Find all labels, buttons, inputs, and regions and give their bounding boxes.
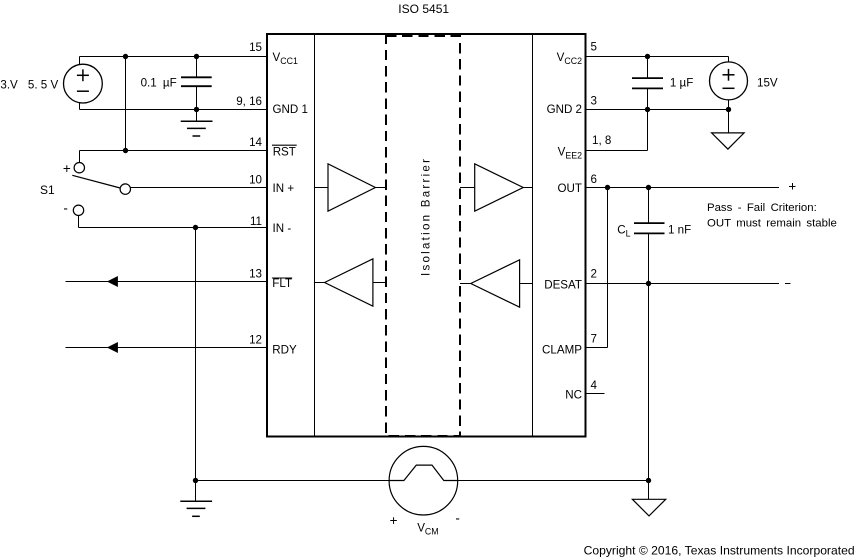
wire OUT to CLAMP jumper (607, 188, 609, 348)
wire RDY row (66, 347, 267, 349)
svg-text:+: + (390, 513, 398, 528)
svg-text:1 µF: 1 µF (670, 76, 693, 89)
switch S1 moving contact circle (120, 184, 130, 194)
wire IN- row (79, 227, 267, 229)
svg-text:ISO 5451: ISO 5451 (398, 2, 449, 16)
buffer A4 stubs (460, 283, 471, 285)
plus mark at OUT observation terminal (789, 186, 795, 188)
wire V1 top lead (79, 57, 81, 65)
wire RST drop to switch (79, 151, 81, 163)
junction dot DESAT/CL (646, 281, 651, 286)
junction dot OUT/jumper (605, 185, 610, 190)
svg-text:12: 12 (249, 334, 262, 347)
buffer A2 stubs (315, 282, 325, 284)
wire V2 bottom lead (728, 100, 730, 110)
svg-text:11: 11 (250, 215, 262, 228)
arrow FLT (107, 276, 118, 287)
buffer A1 IN triangle (328, 164, 375, 211)
svg-text:13: 13 (249, 267, 262, 280)
RST overline (272, 144, 297, 146)
wire NC stub (587, 393, 605, 395)
capacitor C1 bottom lead (196, 86, 198, 109)
earth ground triangle bottom right (632, 499, 665, 516)
svg-text:9, 16: 9, 16 (236, 95, 262, 108)
junction dot GND1/C1 (194, 107, 199, 112)
svg-text:3.V: 3.V (0, 79, 18, 92)
svg-text:Pass - Fail Criterion:: Pass - Fail Criterion: (707, 202, 817, 214)
switch S1 fixed contact circle (74, 163, 84, 173)
wire bottom rail (196, 480, 649, 482)
svg-text:7: 7 (591, 333, 597, 346)
voltage source V1 circle (64, 64, 103, 103)
svg-text:RDY: RDY (272, 344, 297, 357)
buffer A2 FLT triangle (325, 259, 373, 306)
svg-text:Isolation Barrier: Isolation Barrier (419, 159, 432, 276)
ground symbol bottom left stem (195, 481, 197, 502)
svg-text:OUT: OUT (558, 182, 582, 195)
svg-text:5. 5 V: 5. 5 V (28, 79, 59, 92)
IC inner separator left (314, 35, 316, 436)
junction dot bottom rail right (646, 478, 651, 483)
wire RST row (80, 150, 267, 152)
svg-text:2: 2 (591, 267, 597, 280)
svg-text:OUT must remain stable: OUT must remain stable (707, 217, 837, 229)
buffer A1 stubs (315, 187, 329, 189)
svg-text:NC: NC (565, 389, 582, 402)
buffer A3 OUT triangle (475, 164, 524, 211)
capacitor C2 bottom lead (647, 88, 649, 109)
wire minus terminal drop (78, 216, 80, 228)
junction dot VCC2/C2 (645, 54, 650, 59)
svg-text:1, 8: 1, 8 (592, 134, 611, 147)
junction dot OUT/CL (646, 185, 651, 190)
IC inner separator right (532, 35, 534, 436)
voltage source V2 15V circle (710, 62, 748, 100)
V1 minus sign (77, 90, 89, 92)
wire long vertical IN- to bottom rail (195, 228, 197, 481)
svg-text:10: 10 (249, 173, 262, 186)
junction dot GND2/15V (726, 107, 731, 112)
V1 plus sign (77, 74, 89, 76)
junction dot VCC1/C1 (194, 54, 199, 59)
buffer A4 DESAT triangle (471, 260, 520, 307)
isolation barrier dashed box (386, 36, 460, 436)
earth stem bottom right (648, 481, 650, 500)
wire VEE2 row (587, 150, 648, 152)
svg-text:-: - (455, 511, 460, 526)
svg-text:IN +: IN + (273, 182, 295, 195)
capacitor CL plates (634, 222, 665, 224)
V2 minus sign (723, 87, 735, 89)
source VCM circle (389, 446, 458, 515)
svg-text:+: + (63, 161, 71, 176)
capacitor C2 plates (632, 77, 663, 79)
svg-text:CLAMP: CLAMP (542, 344, 582, 357)
svg-text:15V: 15V (757, 76, 778, 89)
svg-text:-: - (63, 201, 68, 216)
junction dot VCC1/vertical (123, 54, 128, 59)
FLT overline (272, 277, 292, 279)
junction dot RST/vertical (123, 148, 128, 153)
wire GND1 rail (80, 109, 267, 111)
capacitor C1 plates (181, 76, 212, 78)
svg-text:µF: µF (163, 76, 177, 89)
junction dot bottom rail left (193, 478, 198, 483)
svg-text:IN -: IN - (273, 222, 292, 235)
wire OUT row (587, 187, 779, 189)
svg-text:GND 2: GND 2 (547, 103, 582, 116)
V2 plus sign (723, 74, 735, 76)
switch S1 lever arm (72, 175, 120, 188)
wire FLT row (66, 281, 267, 283)
switch S1 minus terminal circle (73, 205, 83, 215)
wire DESAT row (587, 283, 779, 285)
buffer A3 stubs (460, 187, 475, 189)
earth stem under 15V (728, 110, 730, 133)
wire VEE2 drop (647, 110, 649, 151)
wire V2 top lead (728, 57, 730, 63)
svg-text:GND 1: GND 1 (273, 103, 308, 116)
svg-text:3: 3 (591, 95, 597, 108)
wire vertical VCC1 to RST (125, 57, 127, 151)
capacitor C2 top lead (647, 57, 649, 79)
minus mark at DESAT observation terminal (785, 283, 791, 285)
arrow RDY (107, 342, 118, 353)
wire CLAMP row (587, 347, 608, 349)
capacitor CL bottom lead (648, 233, 650, 480)
svg-text:S1: S1 (40, 183, 55, 197)
wire IN+ row (131, 187, 267, 189)
svg-text:15: 15 (249, 41, 262, 54)
svg-text:FLT: FLT (272, 277, 292, 290)
svg-text:0.1: 0.1 (141, 76, 157, 89)
earth ground triangle under 15V (712, 133, 745, 149)
svg-text:DESAT: DESAT (544, 278, 582, 291)
wire VCC1 rail (80, 56, 267, 58)
svg-text:14: 14 (249, 136, 262, 149)
svg-text:1 nF: 1 nF (668, 224, 691, 237)
wire VCC2 rail (587, 56, 729, 58)
junction dot GND2/C2 (645, 107, 650, 112)
wire GND2 rail (587, 109, 729, 111)
capacitor CL top lead (648, 188, 650, 224)
wire V1 bottom lead (79, 103, 81, 110)
svg-text:Copyright © 2016, Texas Instru: Copyright © 2016, Texas Instruments Inco… (584, 544, 855, 558)
svg-text:6: 6 (591, 173, 597, 186)
VCM trapezoid pulse waveform (389, 465, 457, 480)
ground symbol under C1 (196, 110, 198, 122)
svg-text:5: 5 (591, 41, 597, 54)
svg-text:4: 4 (591, 379, 598, 392)
capacitor C1 top lead (196, 57, 198, 78)
IC body outline (267, 34, 586, 437)
svg-text:RST: RST (273, 146, 296, 159)
junction dot IN-/long vertical (193, 225, 198, 230)
